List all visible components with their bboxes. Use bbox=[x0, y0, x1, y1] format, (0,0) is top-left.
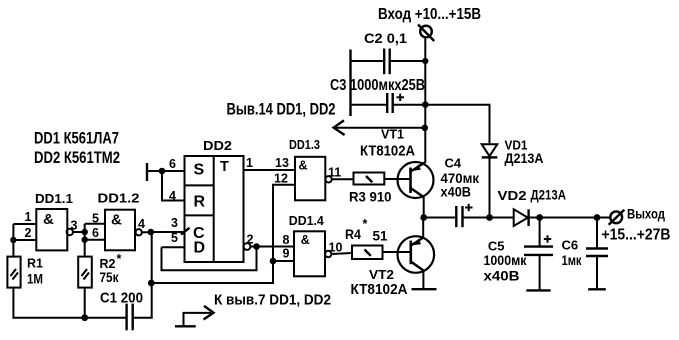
svg-text:1мк: 1мк bbox=[562, 252, 583, 268]
svg-text:+15...+27В: +15...+27В bbox=[602, 227, 671, 244]
node: Q-bar junction bbox=[253, 243, 260, 250]
capacitor C4 bbox=[456, 204, 489, 227]
svg-text:К выв.7 DD1, DD2: К выв.7 DD1, DD2 bbox=[214, 292, 331, 309]
svg-text:DD1.4: DD1.4 bbox=[289, 213, 325, 228]
svg-text:5: 5 bbox=[171, 231, 178, 245]
svg-text:DD1.3: DD1.3 bbox=[289, 137, 320, 152]
svg-text:DD1.1: DD1.1 bbox=[35, 191, 73, 206]
flip-flop DD2 bbox=[181, 156, 250, 262]
svg-text:*: * bbox=[117, 252, 122, 266]
diode VD2 bbox=[514, 209, 529, 226]
wire: R1 bottom rail bbox=[13, 288, 125, 318]
svg-text:D: D bbox=[194, 240, 206, 257]
svg-text:&: & bbox=[299, 158, 308, 172]
capacitor C3 bbox=[351, 93, 425, 113]
svg-text:&: & bbox=[43, 211, 54, 228]
svg-text:11: 11 bbox=[328, 166, 341, 180]
diode VD1 bbox=[482, 144, 498, 217]
svg-text:R1: R1 bbox=[27, 257, 43, 271]
capacitor C2 bbox=[351, 49, 426, 117]
wire: pin 9 line bbox=[273, 260, 294, 262]
wire: R3 to VT1 base bbox=[384, 178, 409, 180]
svg-text:&: & bbox=[111, 212, 122, 229]
svg-text:6: 6 bbox=[92, 226, 99, 240]
resistor R4 bbox=[352, 246, 383, 260]
svg-text:DD1 К561ЛА7: DD1 К561ЛА7 bbox=[34, 129, 119, 148]
wire: DD1.3 out to R3 bbox=[332, 178, 354, 180]
wire: main input rail down to VT1 bbox=[424, 61, 426, 163]
wire: Q (pin1) to DD1.3 pin 13 bbox=[244, 169, 296, 171]
node: bottom rail junction bbox=[81, 314, 88, 321]
svg-text:VT1: VT1 bbox=[381, 127, 404, 142]
svg-text:4: 4 bbox=[138, 217, 145, 231]
svg-text:1: 1 bbox=[246, 156, 253, 170]
svg-text:12: 12 bbox=[274, 172, 288, 186]
wire: DD1.1 out to DD1.2 in bbox=[73, 231, 85, 233]
node: VD1 rail junction bbox=[486, 214, 493, 221]
svg-text:Д213А: Д213А bbox=[531, 187, 567, 203]
svg-text:S: S bbox=[194, 162, 205, 179]
node: DD1.1 out junction bbox=[82, 229, 88, 235]
gate DD1.3 bbox=[295, 157, 332, 201]
svg-text:х40В: х40В bbox=[441, 184, 472, 200]
svg-text:51: 51 bbox=[373, 228, 388, 244]
svg-text:3: 3 bbox=[171, 216, 178, 230]
gate DD1.4 bbox=[294, 231, 331, 276]
svg-text:VT2: VT2 bbox=[369, 267, 394, 282]
wire: DD1.2 out to DD2 C input bbox=[142, 231, 151, 233]
svg-text:T: T bbox=[220, 159, 229, 175]
svg-text:10: 10 bbox=[329, 241, 343, 255]
svg-text:КТ8102А: КТ8102А bbox=[351, 281, 408, 298]
node: C5 junction bbox=[536, 214, 543, 221]
wire: DD1.2 inputs from DD1.1 out bbox=[85, 224, 105, 257]
wire: rail to VD2 bbox=[490, 217, 514, 219]
output terminal X2 bbox=[609, 210, 625, 225]
node: timing node junction at C input bbox=[148, 229, 155, 236]
svg-text:Д213А: Д213А bbox=[505, 150, 544, 166]
wire: S input with terminal bar bbox=[147, 163, 185, 181]
svg-text:КТ8102А: КТ8102А bbox=[360, 143, 415, 160]
wire: rail to VD1 bbox=[425, 105, 489, 144]
node: junction pin14 branch bbox=[422, 125, 429, 132]
svg-text:DD2 К561ТМ2: DD2 К561ТМ2 bbox=[34, 148, 120, 167]
transistor VT1 bbox=[398, 162, 434, 218]
gate DD1.1 bbox=[36, 209, 73, 250]
wire: pin 12 to timing node bbox=[273, 185, 295, 261]
svg-text:3: 3 bbox=[71, 219, 78, 233]
wire: arrow to pin 7 of DD1, DD2 bbox=[175, 306, 214, 326]
gate DD1.2 bbox=[105, 210, 142, 251]
svg-text:Вход +10...+15В: Вход +10...+15В bbox=[378, 6, 481, 23]
wire: DD1.4 out to R4 bbox=[331, 253, 352, 254]
svg-text:VD2: VD2 bbox=[498, 188, 527, 203]
svg-text:9: 9 bbox=[283, 247, 290, 261]
svg-text:2: 2 bbox=[25, 226, 32, 240]
wire: D input feedback from Q-bar bbox=[162, 247, 257, 271]
wire: R4 to VT2 base bbox=[383, 251, 410, 253]
transistor VT2 bbox=[398, 218, 437, 290]
wire: R2 bottom bbox=[84, 288, 86, 318]
svg-text:1: 1 bbox=[25, 210, 32, 224]
svg-text:C1 200: C1 200 bbox=[100, 290, 143, 307]
svg-text:1000мк: 1000мк bbox=[484, 252, 528, 268]
capacitor C6 bbox=[586, 218, 608, 290]
resistor R3 bbox=[354, 173, 385, 185]
svg-text:C6: C6 bbox=[562, 238, 579, 253]
wire: DD1.1 inputs bbox=[13, 224, 36, 257]
node: feedback junction bbox=[148, 280, 155, 287]
node: S/R junction bbox=[159, 168, 166, 175]
wire: terminal to input rail bbox=[424, 38, 426, 62]
wire: arrow to pin 14 of DD1, DD2 bbox=[334, 120, 425, 135]
svg-text:Выв.14 DD1, DD2: Выв.14 DD1, DD2 bbox=[227, 101, 336, 119]
svg-text:13: 13 bbox=[275, 156, 289, 170]
svg-text:C4: C4 bbox=[445, 156, 462, 171]
svg-text:C2 0,1: C2 0,1 bbox=[364, 30, 407, 46]
wire: R input bbox=[162, 171, 185, 201]
node: junction C3/VD1 branch bbox=[422, 101, 429, 108]
capacitor C5 bbox=[524, 218, 553, 291]
wire: Q-bar to DD1.4 pin 8 bbox=[250, 246, 294, 248]
node: DD1.2 pin6 junction bbox=[82, 237, 88, 243]
svg-text:2: 2 bbox=[247, 233, 254, 247]
node: input junction at C2 bbox=[422, 58, 428, 64]
svg-text:6: 6 bbox=[169, 157, 176, 171]
capacitor C1 bbox=[127, 232, 152, 330]
svg-text:х40В: х40В bbox=[484, 268, 520, 284]
resistor R2 bbox=[78, 257, 92, 288]
svg-text:&: & bbox=[301, 233, 310, 247]
input terminal X1 bbox=[418, 25, 434, 42]
svg-text:8: 8 bbox=[283, 233, 290, 247]
svg-text:C3 1000мкх25В: C3 1000мкх25В bbox=[330, 77, 425, 94]
svg-text:R: R bbox=[194, 194, 206, 211]
wire: VD2 to output terminal bbox=[529, 217, 611, 219]
svg-text:DD2: DD2 bbox=[203, 138, 232, 153]
wire: output rail bbox=[424, 217, 456, 219]
node: R1 top junction bbox=[10, 237, 16, 243]
resistor R1 bbox=[7, 257, 20, 288]
svg-text:Выход: Выход bbox=[627, 206, 665, 222]
svg-text:DD1.2: DD1.2 bbox=[98, 191, 140, 206]
svg-text:R4: R4 bbox=[345, 226, 361, 242]
svg-text:75к: 75к bbox=[100, 269, 120, 285]
svg-text:*: * bbox=[363, 217, 368, 231]
node: VT1 emitter / VT2 collector junction bbox=[420, 214, 427, 221]
node: C6 junction bbox=[594, 214, 601, 221]
svg-text:R3 910: R3 910 bbox=[349, 189, 392, 205]
wire: feedback to C1 node bbox=[151, 261, 273, 283]
svg-text:1М: 1М bbox=[27, 271, 43, 287]
node: pin 9/12 junction bbox=[270, 258, 277, 265]
